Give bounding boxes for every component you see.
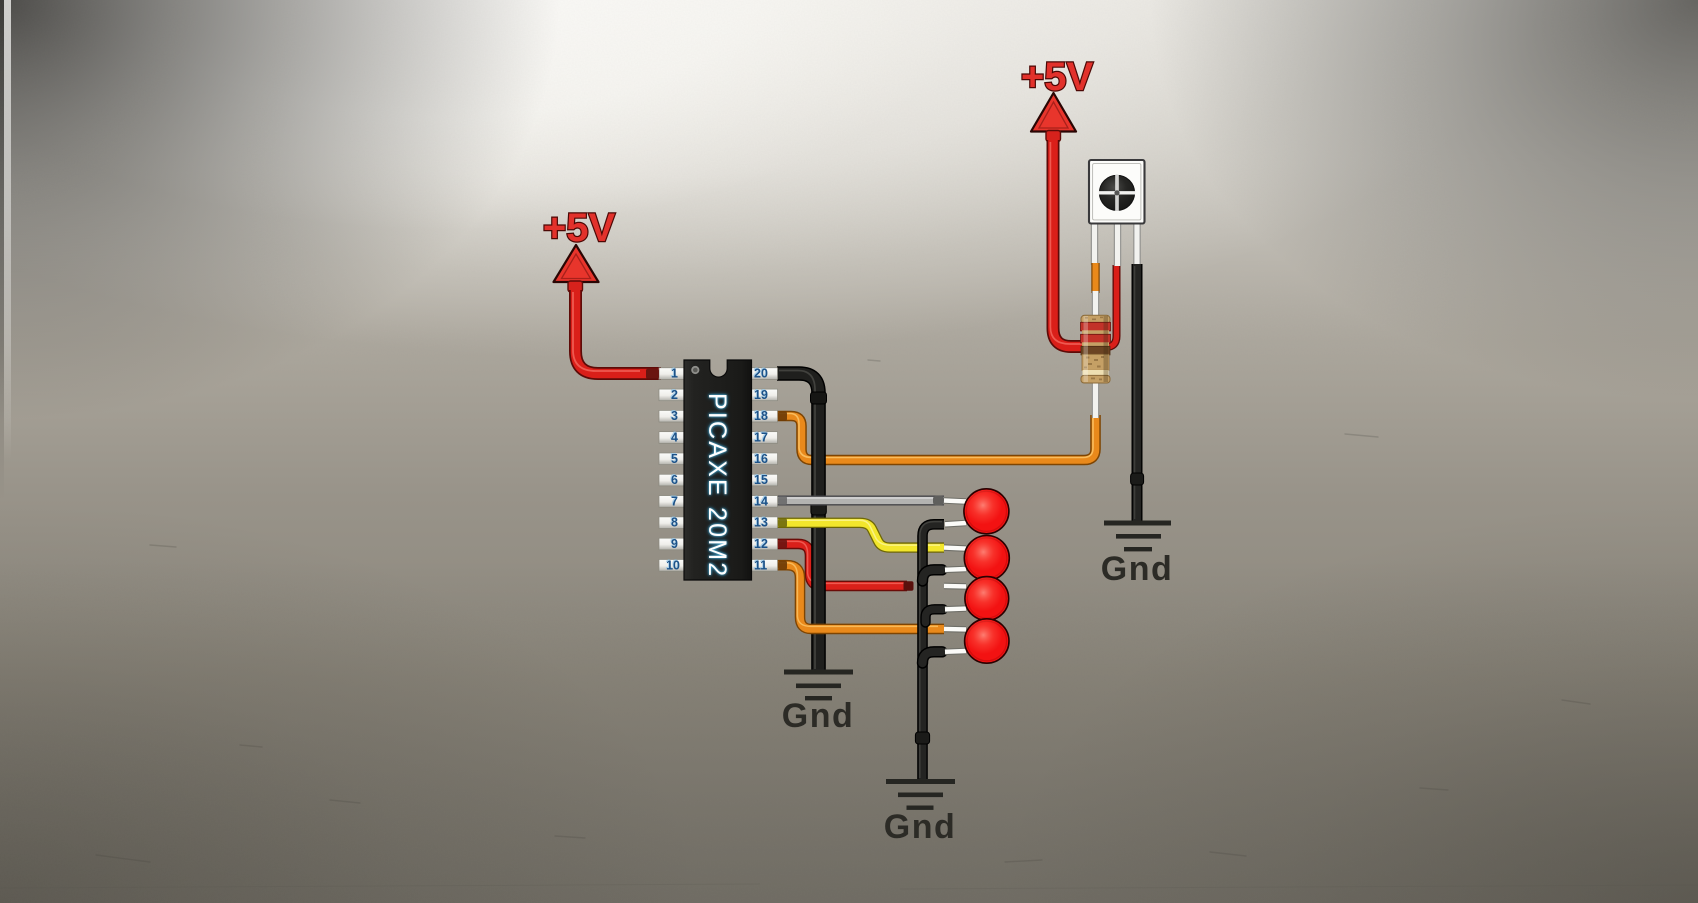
LED D2 cathode lead [945,566,966,573]
IC pin 16 [752,452,778,466]
IC pin 1 [659,367,685,381]
IC pin 12 [752,537,778,551]
LED D1 cathode lead [945,523,966,524]
wire red IC pin 12 to LED D3 anode [777,541,907,586]
IC body [684,360,752,580]
svg-text:18: 18 [754,409,768,423]
wire yellow IC pin 13 to LED D2 anode [777,520,944,547]
IC pin 6 [659,473,685,487]
svg-text:+5V: +5V [1021,55,1094,99]
IR lens crosshair [1115,175,1118,212]
LED D3 cathode elbow stub [926,609,944,622]
wire red +5V to IC pin 1 [573,290,661,374]
IR lens dome [1099,175,1134,210]
ground symbol (LED bus) [886,779,955,810]
svg-text:4: 4 [671,431,678,445]
svg-text:5: 5 [671,452,678,466]
svg-text:1: 1 [671,367,678,381]
LED D4 anode lead [944,626,966,633]
IC pin 5 [659,452,685,466]
svg-text:Gnd: Gnd [782,697,854,735]
svg-text:3: 3 [671,409,678,423]
LED D3 cathode lead [945,605,966,612]
svg-text:10: 10 [666,558,680,572]
svg-text:13: 13 [754,516,768,530]
ground symbol (IC side) [784,670,853,701]
IC right pins 20-11 [752,367,778,573]
IC pin 15 [752,473,778,487]
LED D4 cathode lead [945,648,966,655]
svg-text:7: 7 [671,494,678,508]
wire black IC pin 20 to ground bus [777,371,827,672]
IC pin 17 [752,431,778,445]
IC pin-1 dot [691,366,699,374]
IC pin 4 [659,431,685,445]
IC pin 19 [752,388,778,402]
wire end caps at IC pins [646,369,787,570]
IC pin 8 [659,516,685,530]
IR receiver U2 body [1089,160,1145,224]
svg-text:9: 9 [671,537,678,551]
svg-text:19: 19 [754,388,768,402]
LED D4 [965,619,1009,663]
IR receiver lead 1 (left, to resistor) [1095,223,1096,418]
IR receiver lead 3 (right, ground) + wire black to ground [1131,223,1144,521]
IC pin 7 [659,494,685,508]
LED D2 anode lead [944,548,966,549]
IC pin 9 [659,537,685,551]
power +5V arrow (right) [1031,93,1076,142]
svg-text:Gnd: Gnd [1101,550,1173,588]
svg-text:14: 14 [754,494,768,508]
LED D2 [964,536,1009,581]
IC pin 11 [752,558,778,572]
svg-text:16: 16 [754,452,768,466]
wire orange IC pin 11 to LED D4 anode [777,563,944,629]
svg-text:8: 8 [671,516,678,530]
IC left pins 1-10 [659,367,685,573]
power +5V label (right) [1021,55,1094,99]
svg-text:+5V: +5V [543,206,616,250]
wire red +5V to IR receiver pin 2 [1050,140,1116,347]
LED D1 [964,489,1009,534]
ground symbol (IR side) [1104,521,1171,552]
LED D3 anode lead [944,583,966,590]
power +5V arrow (left) [554,245,599,292]
svg-text:15: 15 [754,473,768,487]
IC U1 PICAXE 20M2 [659,360,778,580]
IC pin 3 [659,409,685,423]
IC pin 20 [752,367,778,381]
svg-text:12: 12 [754,537,768,551]
power +5V label (left) [543,206,616,250]
wire white IC pin 14 to LED D1 anode [777,496,944,505]
IC pin 2 [659,388,685,402]
svg-text:2: 2 [671,388,678,402]
IR receiver lead 2 (middle, +5V) [1114,223,1121,266]
svg-text:Gnd: Gnd [884,808,956,846]
svg-text:PICAXE 20M2: PICAXE 20M2 [703,393,731,578]
wire red pin 12 end cap [904,581,914,591]
IC pin 14 [752,494,778,508]
LED D4 cathode elbow stub [923,652,943,663]
svg-text:17: 17 [754,431,768,445]
LED cathode bus wire [915,522,944,780]
LED D3 [965,577,1009,621]
wire orange IC pin 18 to resistor R1 [777,414,1096,461]
IC pin 10 [659,558,685,572]
resistor R1 (220R) [1081,315,1111,383]
LED D2 cathode elbow stub [923,570,943,581]
LED D1 anode lead [944,501,966,502]
svg-text:11: 11 [754,558,767,572]
IC pin 18 [752,409,778,423]
svg-text:20: 20 [754,367,768,381]
IC pin 13 [752,516,778,530]
svg-text:6: 6 [671,473,678,487]
